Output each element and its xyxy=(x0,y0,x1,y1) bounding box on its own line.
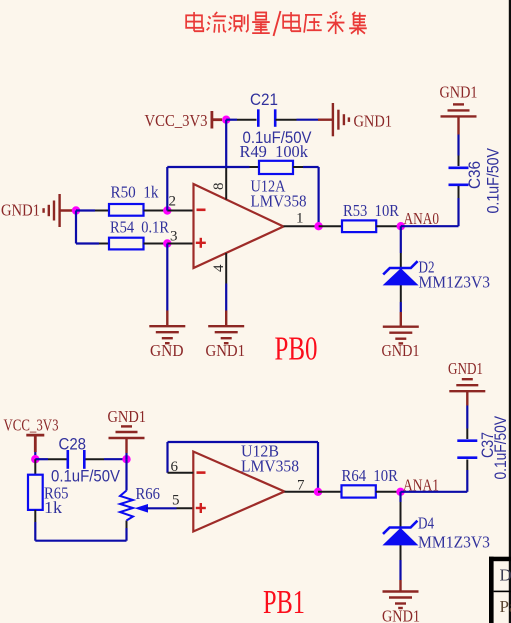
pin C37 bottom xyxy=(466,460,468,471)
pin D2 top xyxy=(400,253,402,302)
svg-text:4: 4 xyxy=(211,264,227,272)
svg-text:VCC_3V3: VCC_3V3 xyxy=(4,415,59,434)
power port VCC_3V3 bottom bar xyxy=(26,435,44,452)
svg-text:C36: C36 xyxy=(466,161,484,189)
junction at VCC xyxy=(222,116,230,124)
svg-text:Pa: Pa xyxy=(500,597,511,616)
title char 电 xyxy=(186,12,203,31)
wire to R54 xyxy=(76,242,99,244)
plus sign U12B xyxy=(196,503,206,513)
svg-text:2: 2 xyxy=(169,194,177,210)
svg-text:6: 6 xyxy=(171,459,179,475)
wire up to C37 xyxy=(466,470,468,492)
wire VCC down to pin 8 xyxy=(225,120,227,166)
svg-text:PB0: PB0 xyxy=(275,331,318,368)
wire C21 to GND1 xyxy=(297,119,319,121)
wire feedback U12B down xyxy=(317,442,319,492)
pin 3 of U12A xyxy=(167,243,193,245)
wire up to C36 xyxy=(457,198,459,226)
pin R50 left xyxy=(95,210,109,212)
wire D2 to GND1 xyxy=(400,302,402,312)
pin C28 left xyxy=(48,458,67,460)
power port GND1 below U12A xyxy=(208,311,244,344)
op-amp U12B xyxy=(193,452,284,532)
pin R49 right xyxy=(293,166,303,168)
wire ANA0 to C36 branch xyxy=(401,225,459,227)
power port GND xyxy=(149,311,185,344)
svg-text:0.1uF/50V: 0.1uF/50V xyxy=(492,416,510,480)
svg-text:1k: 1k xyxy=(44,498,63,517)
svg-text:8: 8 xyxy=(211,183,227,191)
power port GND1 above C28 junction xyxy=(109,426,145,453)
wire D4 to GND1 xyxy=(399,560,401,580)
pin 6 of U12B xyxy=(168,472,194,474)
title char 集 xyxy=(349,12,367,35)
power port GND1 left xyxy=(44,194,76,227)
junction at pin 2 xyxy=(163,206,171,214)
svg-text:GND1: GND1 xyxy=(1,201,40,220)
wire feedback up from pin2 xyxy=(166,167,168,211)
wire ANA0 down to D2 xyxy=(400,226,402,253)
wire C37 to GND1 xyxy=(466,406,468,429)
pin D4 top xyxy=(400,502,402,560)
pin 4 of U12A xyxy=(225,253,227,284)
junction VCC bottom xyxy=(31,455,39,463)
minus sign U12A xyxy=(197,209,206,212)
resistor R50 xyxy=(109,204,144,216)
wire C36 to GND1 xyxy=(457,135,459,156)
wire rail up to R66 xyxy=(125,528,127,541)
pin R65 bottom xyxy=(34,510,36,522)
potentiometer R66 wiper arrow xyxy=(135,504,149,513)
power port GND1 below D2 xyxy=(383,312,419,343)
zener diode D2 xyxy=(383,261,419,285)
power port GND1 right of C21 xyxy=(318,103,349,136)
pin R53 left xyxy=(319,225,342,227)
resistor R54 xyxy=(109,238,144,250)
pin 8 of U12A xyxy=(225,166,227,200)
pin R54 left xyxy=(99,243,109,245)
title block xyxy=(489,557,511,623)
pin 1 output U12A xyxy=(284,225,319,227)
wire junction to C28 xyxy=(35,458,48,460)
svg-text:MM1Z3V3: MM1Z3V3 xyxy=(419,273,491,292)
pin R64 left xyxy=(318,491,342,493)
wire bottom rail xyxy=(35,540,126,542)
wire pin4 down xyxy=(225,284,227,311)
wire pin3 junction down to GND xyxy=(166,244,168,311)
svg-text:1: 1 xyxy=(296,211,304,227)
potentiometer R66 zigzag xyxy=(120,491,133,521)
svg-text:VCC_3V3: VCC_3V3 xyxy=(145,111,208,130)
capacitor C21 xyxy=(258,109,275,127)
wire feedback horizontal xyxy=(167,166,249,168)
junction at GND1 left xyxy=(72,206,80,214)
pin C21 right xyxy=(276,119,297,121)
wire junction to R50 xyxy=(76,209,95,211)
svg-text:R66: R66 xyxy=(136,484,161,503)
svg-text:R54 0.1R: R54 0.1R xyxy=(110,217,170,236)
wire GND1 to junction xyxy=(125,453,127,459)
power port GND1 above C36 xyxy=(441,104,477,134)
svg-text:GND1: GND1 xyxy=(440,83,478,102)
svg-text:C28: C28 xyxy=(59,436,87,454)
zener diode D4 xyxy=(382,521,418,546)
svg-text:3: 3 xyxy=(170,229,178,245)
title char 采 xyxy=(327,12,345,34)
wire C28 to GND1 junction xyxy=(104,458,127,460)
title slash xyxy=(274,11,281,36)
resistor R64 xyxy=(342,485,376,497)
title 电流测量/电压采集 (hand-drawn strokes) xyxy=(186,11,367,36)
wire VCC bar to junction xyxy=(34,452,36,459)
wire down to output junction xyxy=(318,167,320,226)
svg-text:GND1: GND1 xyxy=(382,341,420,360)
wire GND1 junction down xyxy=(75,211,77,244)
svg-text:C21: C21 xyxy=(250,91,278,109)
svg-text:GND1: GND1 xyxy=(382,607,420,623)
junction below GND1 xyxy=(122,455,130,463)
wire ANA1 down to D4 xyxy=(399,492,401,502)
pin R49 left xyxy=(250,166,260,168)
pin C36 top xyxy=(458,156,460,167)
title char 测 xyxy=(229,14,248,32)
svg-text:0.1uF/50V: 0.1uF/50V xyxy=(485,148,503,214)
wire ANA1 to C37 branch xyxy=(401,491,468,493)
junction ANA0 xyxy=(397,222,405,230)
resistor R53 xyxy=(342,220,376,232)
svg-text:Da: Da xyxy=(500,566,511,585)
power port VCC_3V3 bar xyxy=(212,111,222,129)
svg-text:5: 5 xyxy=(172,493,180,509)
power port GND1 above C37 xyxy=(449,379,485,405)
svg-text:R50 1k: R50 1k xyxy=(111,182,159,201)
svg-text:7: 7 xyxy=(297,478,305,494)
plus sign U12A xyxy=(196,238,206,248)
svg-text:PB1: PB1 xyxy=(263,584,305,621)
pin R66 bottom xyxy=(126,521,128,529)
svg-text:R64 10R: R64 10R xyxy=(342,466,399,485)
svg-text:GND1: GND1 xyxy=(448,359,483,378)
wire R65 down xyxy=(34,522,36,541)
resistor R65 xyxy=(28,475,43,510)
junction ANA1 xyxy=(396,488,404,496)
pin C21 left xyxy=(237,119,257,121)
pin R65 top xyxy=(34,459,36,475)
wire wiper to pin 5 xyxy=(146,507,177,509)
wire feedback U12B horizontal xyxy=(168,441,319,443)
title char 量 xyxy=(252,12,270,33)
svg-text:GND1: GND1 xyxy=(108,407,147,426)
pin R54 right xyxy=(144,243,168,245)
wire junction down to R66 xyxy=(125,459,127,490)
junction at pin 3 xyxy=(163,239,171,247)
power port GND1 below D4 xyxy=(383,580,419,608)
pin R53 right xyxy=(376,225,396,227)
junction at output U12A xyxy=(314,222,322,230)
pin 7 output U12B xyxy=(285,491,319,493)
svg-text:R53 10R: R53 10R xyxy=(343,201,400,220)
resistor R49 xyxy=(259,161,293,174)
svg-text:GND: GND xyxy=(150,341,184,360)
minus sign U12B xyxy=(197,471,206,474)
title char 压 xyxy=(304,15,322,33)
svg-text:LMV358: LMV358 xyxy=(241,457,299,476)
op-amp U12A xyxy=(194,184,284,268)
title char 电 second xyxy=(283,12,300,31)
sheet border xyxy=(509,0,511,623)
pin C37 top xyxy=(466,429,468,440)
pin C36 bottom xyxy=(458,186,460,198)
svg-text:LMV358: LMV358 xyxy=(251,192,307,211)
svg-text:GND1: GND1 xyxy=(206,341,246,360)
pin C28 right xyxy=(86,458,105,460)
svg-text:MM1Z3V3: MM1Z3V3 xyxy=(418,533,490,552)
pin R50 right xyxy=(144,210,168,212)
junction output U12B xyxy=(314,488,322,496)
title char 流 xyxy=(207,12,226,33)
svg-text:0.1uF/50V: 0.1uF/50V xyxy=(243,129,312,147)
wire VCC to C21 xyxy=(226,119,237,121)
pin 5 of U12B xyxy=(177,507,194,509)
capacitor C36 xyxy=(449,168,469,185)
svg-text:GND1: GND1 xyxy=(354,112,393,131)
capacitor C28 xyxy=(68,450,85,469)
wire R49 to output xyxy=(303,166,319,168)
pin R64 right xyxy=(376,491,397,493)
pin 2 of U12A xyxy=(167,210,193,212)
wire to ANA0 junction xyxy=(397,225,401,227)
wire to ANA1 junction xyxy=(397,491,401,493)
capacitor C37 xyxy=(457,441,477,458)
wire feedback U12B vertical left xyxy=(166,442,168,473)
svg-text:D4: D4 xyxy=(418,514,434,533)
